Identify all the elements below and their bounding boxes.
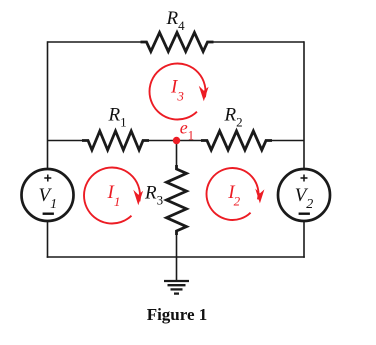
wire R4 to top-right [213, 41, 304, 43]
mesh current arrow I2 [206, 168, 264, 220]
voltage source V2 [278, 169, 330, 221]
resistor R2 [201, 131, 272, 150]
voltage source V1 [22, 169, 74, 221]
svg-text:R2: R2 [224, 104, 243, 129]
wire middle right (R2 to right rail) [272, 140, 305, 142]
mesh current arrow I3 [150, 63, 209, 119]
node e1 [173, 137, 180, 144]
svg-text:e1: e1 [180, 118, 194, 143]
svg-text:R4: R4 [166, 8, 186, 33]
svg-text:I1: I1 [107, 182, 121, 209]
wire node e1 to R3 [176, 141, 178, 167]
wire V2 bottom [303, 221, 305, 258]
resistor R1 [82, 131, 149, 150]
svg-text:I2: I2 [227, 182, 240, 209]
svg-text:R1: R1 [108, 104, 127, 129]
wire V1 bottom [47, 221, 49, 258]
resistor R3 [167, 165, 187, 235]
wire R3 to ground [176, 234, 178, 281]
ground [164, 281, 189, 294]
wire left vertical [47, 41, 49, 169]
wire top-left to R4 [48, 41, 142, 43]
svg-text:I3: I3 [170, 77, 184, 104]
wire bottom rail [47, 256, 305, 258]
svg-text:V1: V1 [39, 185, 58, 212]
svg-text:Figure 1: Figure 1 [147, 305, 208, 324]
resistor R4 [141, 33, 214, 52]
wire middle left (V1 to R1) [48, 140, 83, 142]
wire right vertical [303, 41, 305, 169]
svg-text:R3: R3 [144, 182, 163, 207]
wire middle center (R1 to R2 through node e1) [149, 140, 202, 142]
svg-text:V2: V2 [295, 185, 314, 212]
mesh current arrow I1 [84, 167, 143, 223]
